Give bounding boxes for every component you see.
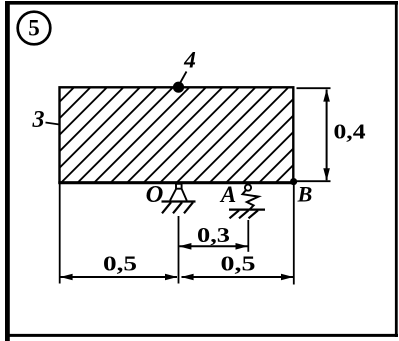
pin support O : triangle sides	[170, 189, 187, 201]
dimension 0,4 vertical line with arrows	[326, 90, 328, 181]
plate (hatched rectangle body 3)	[60, 87, 294, 182]
dimension 0,5 left line with arrows	[61, 276, 178, 278]
dimension 0,5 right line with arrows	[182, 276, 294, 278]
svg-text:0,5: 0,5	[221, 252, 256, 276]
leader line to label 3	[46, 123, 60, 125]
extension line B	[293, 185, 295, 285]
extension line bottom right	[297, 180, 331, 182]
pin support O : pin box	[170, 184, 187, 201]
leader line to label 4	[180, 72, 187, 85]
svg-text:3: 3	[32, 107, 45, 133]
svg-text:0,4: 0,4	[334, 120, 366, 144]
svg-text:0,3: 0,3	[197, 223, 230, 247]
hatching of plate	[0, 84, 374, 185]
svg-text:4: 4	[183, 48, 196, 74]
extension line top right	[297, 87, 331, 89]
problem number badge 5	[18, 12, 51, 45]
extension line left (from plate left edge)	[59, 184, 61, 284]
spring support A : zigzag spring	[243, 190, 259, 209]
svg-text:5: 5	[28, 16, 40, 42]
svg-text:A: A	[219, 182, 236, 207]
node B dot at bottom-right corner	[290, 178, 297, 185]
svg-text:B: B	[297, 182, 313, 207]
spring support A : ground hatching	[230, 210, 259, 218]
point 4 dot on top edge	[173, 82, 184, 93]
dimension 0,3 line with arrows	[179, 245, 247, 247]
svg-text:0,5: 0,5	[103, 252, 137, 276]
plate bottom edge (thicker)	[58, 181, 294, 184]
extension line A	[247, 220, 249, 252]
pin support O : ground hatching	[162, 202, 193, 213]
spring support A : pin circle	[245, 185, 251, 191]
extension line O	[178, 216, 180, 284]
pin support O : ground line	[162, 200, 196, 202]
spring support A : ground line	[229, 208, 265, 210]
svg-text:O: O	[146, 181, 164, 208]
